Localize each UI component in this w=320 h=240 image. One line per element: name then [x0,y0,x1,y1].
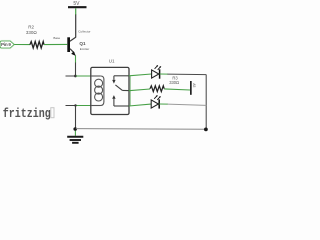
svg-text:330Ω: 330Ω [26,30,38,35]
svg-text:Emitter: Emitter [80,47,90,51]
svg-text:Base: Base [53,36,60,40]
svg-text:Pin 9: Pin 9 [1,42,11,47]
svg-text:fritzing: fritzing [3,108,51,121]
svg-text:Q1: Q1 [79,41,86,46]
svg-text:A5: A5 [192,83,196,87]
svg-text:Collector: Collector [78,30,90,34]
svg-text:U1: U1 [109,58,115,63]
svg-text:330Ω: 330Ω [169,80,179,85]
svg-text:R2: R2 [28,25,34,30]
